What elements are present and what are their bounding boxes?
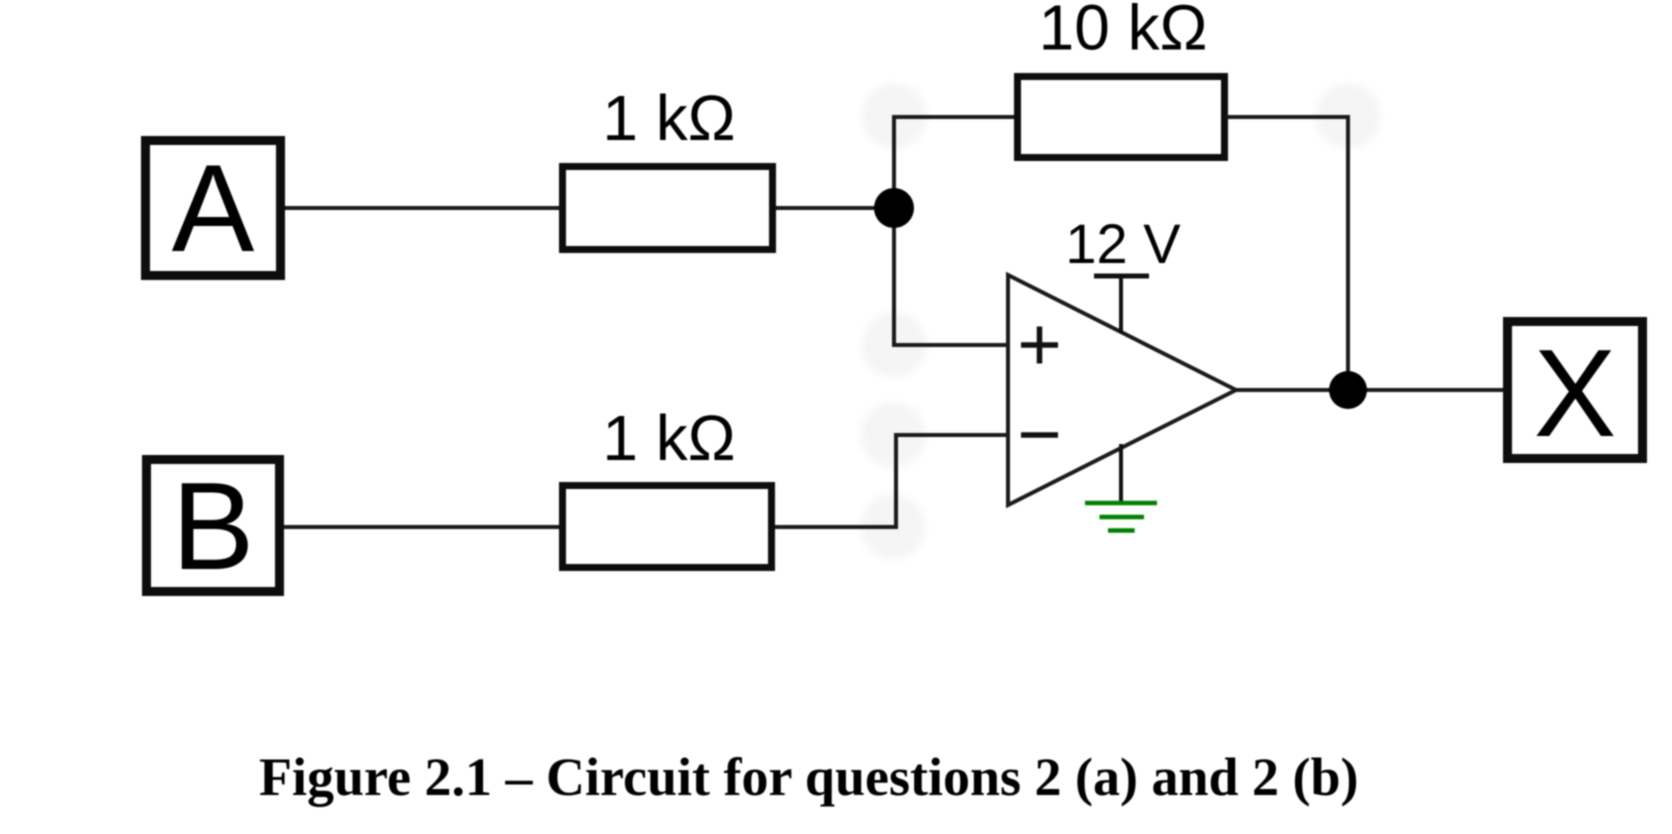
node B (input terminal box B): [147, 458, 280, 596]
ground: [1085, 503, 1157, 531]
wire junction up to feedback resistor R2: [894, 117, 1016, 208]
junction (output node): [1329, 371, 1367, 409]
wire op-amp to ground: [1119, 444, 1123, 503]
node A (input terminal box A): [146, 140, 281, 278]
op-amp U1: [1008, 275, 1236, 505]
junction (inverting node): [874, 188, 914, 228]
svg-text:Figure 2.1 – Circuit for quest: Figure 2.1 – Circuit for questions 2 (a)…: [259, 747, 1359, 807]
resistor R3: [563, 486, 772, 568]
svg-text:X: X: [1534, 325, 1617, 463]
wire op-amp output to X: [1236, 388, 1507, 392]
svg-text:1 kΩ: 1 kΩ: [602, 82, 735, 154]
svg-text:12 V: 12 V: [1065, 212, 1181, 275]
op-amp + input marker: [1021, 327, 1058, 364]
wire B to R3: [284, 525, 562, 529]
op-amp − input marker: [1021, 432, 1058, 438]
svg-text:A: A: [172, 140, 255, 278]
svg-text:10 kΩ: 10 kΩ: [1039, 0, 1208, 64]
wire R3 to op-amp inverting input: [775, 435, 1008, 527]
svg-text:B: B: [172, 458, 255, 596]
resistor R1: [563, 167, 773, 250]
power supply 12 V rail: [1094, 276, 1149, 333]
wire A to R1: [285, 206, 562, 210]
wire R1 to junction: [776, 206, 894, 210]
wire R2 to output junction: [1226, 117, 1348, 390]
node X (output terminal box X): [1508, 322, 1643, 464]
resistor R2: [1018, 77, 1225, 158]
wire junction down to op-amp non-inverting input: [894, 208, 1008, 345]
svg-text:1 kΩ: 1 kΩ: [602, 402, 735, 474]
